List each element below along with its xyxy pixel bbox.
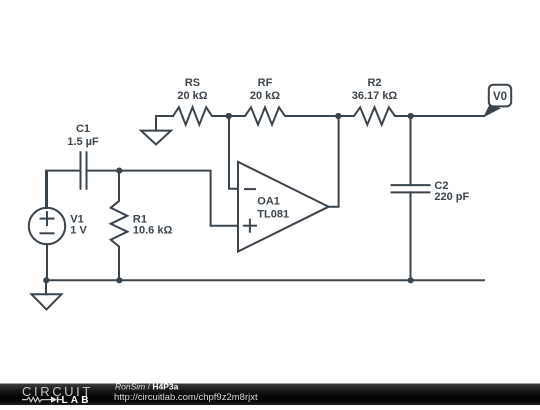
capacitor C1 xyxy=(81,152,120,188)
voltage source V1 xyxy=(29,171,65,280)
svg-text:C1: C1 xyxy=(76,123,90,135)
svg-text:RF: RF xyxy=(258,77,273,89)
svg-text:LAB: LAB xyxy=(62,395,92,405)
footer bar xyxy=(0,384,540,406)
svg-text:220 pF: 220 pF xyxy=(434,191,469,203)
ground xyxy=(141,131,171,145)
wire xyxy=(156,116,173,131)
resistor RF xyxy=(229,107,338,124)
svg-text:OA1: OA1 xyxy=(257,196,280,208)
svg-text:1.5 µF: 1.5 µF xyxy=(67,136,99,148)
node C1-R1 junction xyxy=(116,168,122,174)
wire xyxy=(120,171,238,226)
resistor R2 xyxy=(338,107,411,124)
wire xyxy=(329,116,339,207)
ground xyxy=(32,280,62,309)
node R1-bottom junction xyxy=(116,277,122,283)
CircuitLab logo xyxy=(22,384,93,406)
svg-text:V0: V0 xyxy=(493,91,507,103)
svg-text:1 V: 1 V xyxy=(70,224,87,236)
svg-text:R2: R2 xyxy=(367,77,381,89)
resistor RS xyxy=(173,107,229,124)
svg-text:TL081: TL081 xyxy=(257,208,289,220)
node RS-RF junction xyxy=(226,113,232,119)
label V1 xyxy=(70,213,87,236)
label C2 xyxy=(434,180,469,203)
resistor R1 xyxy=(111,171,128,281)
node C2-bottom junction xyxy=(408,277,414,283)
output flag V0 xyxy=(483,85,511,118)
node RF-R2-output junction xyxy=(335,113,341,119)
wire xyxy=(46,171,80,208)
svg-text:10.6 kΩ: 10.6 kΩ xyxy=(133,224,173,236)
wire xyxy=(411,115,484,117)
node R2-C2 junction xyxy=(408,113,414,119)
label RF xyxy=(250,77,280,102)
svg-text:http://circuitlab.com/chpf9z2m: http://circuitlab.com/chpf9z2m8rjxt xyxy=(114,392,258,403)
svg-text:20 kΩ: 20 kΩ xyxy=(250,90,280,102)
wire xyxy=(46,279,484,281)
op-amp OA1 xyxy=(238,162,329,252)
label R2 xyxy=(352,77,398,102)
svg-text:RS: RS xyxy=(185,77,200,89)
node V1-ground junction xyxy=(43,277,49,283)
footer text xyxy=(114,381,258,403)
svg-text:36.17 kΩ: 36.17 kΩ xyxy=(352,90,398,102)
label RS xyxy=(177,77,207,102)
svg-text:RonSim / H4P3a: RonSim / H4P3a xyxy=(115,381,179,391)
label OA1 xyxy=(257,196,289,221)
capacitor C2 xyxy=(392,116,430,280)
label R1 xyxy=(133,213,173,236)
svg-text:20 kΩ: 20 kΩ xyxy=(177,90,207,102)
label C1 xyxy=(67,123,99,148)
wire xyxy=(229,116,238,189)
